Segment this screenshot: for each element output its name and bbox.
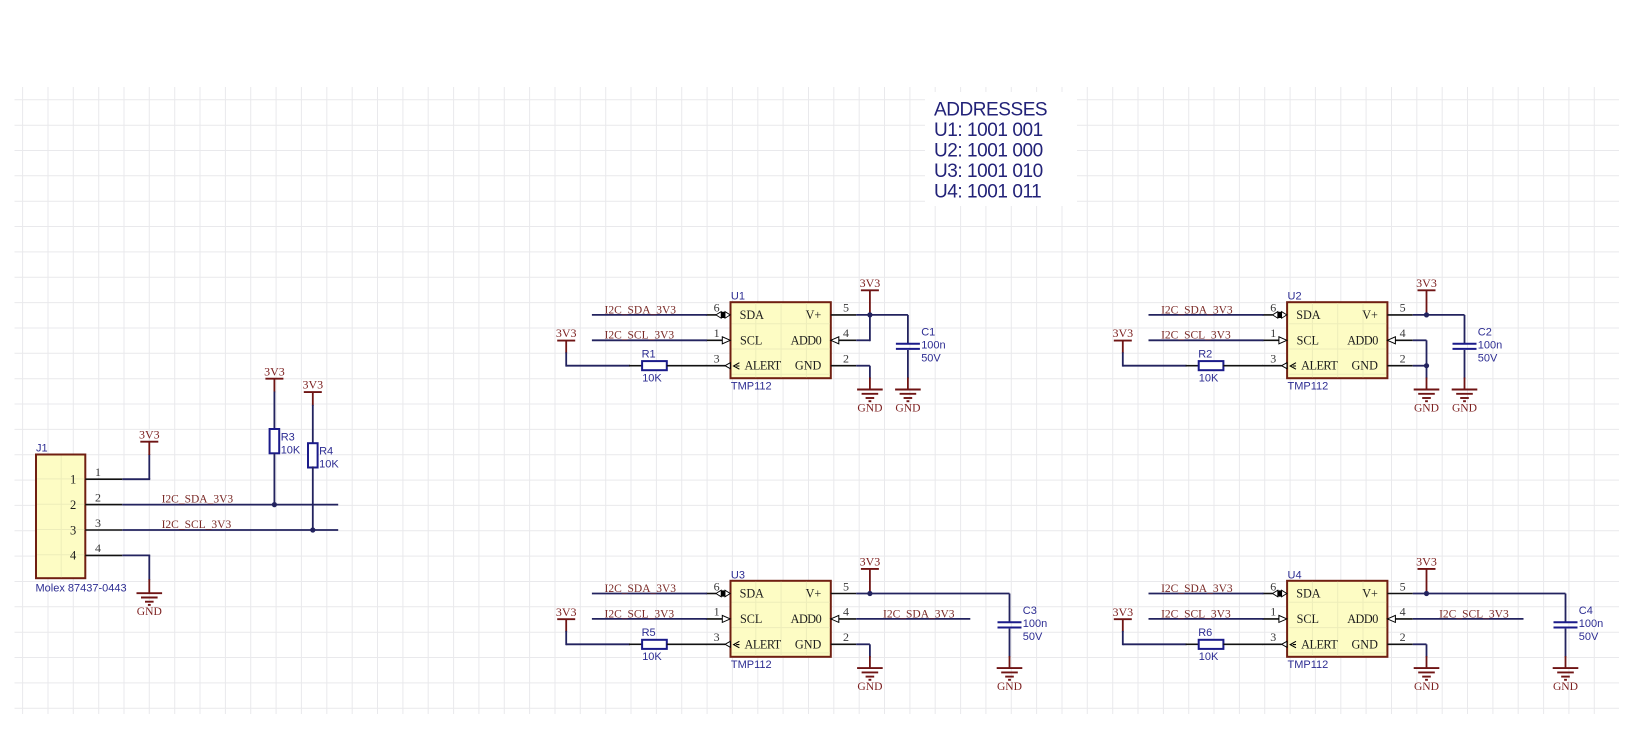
svg-text:I2C_SCL_3V3: I2C_SCL_3V3: [605, 330, 675, 342]
svg-text:4: 4: [1400, 326, 1406, 340]
pin 4 of J1: [70, 541, 122, 563]
svg-text:2: 2: [95, 490, 101, 504]
wire 3V3 stem: [869, 569, 871, 594]
svg-text:6: 6: [1270, 301, 1276, 315]
wire I2C_SCL_3V3 to SCL: [1149, 618, 1264, 620]
svg-text:3: 3: [714, 352, 720, 366]
svg-text:U1: U1: [731, 291, 745, 303]
power 3V3: [302, 378, 323, 392]
connector J1 Molex 87437-0443: [36, 443, 127, 595]
wire V+ rail: [1413, 593, 1566, 595]
pin 3 ALERT of U1: [706, 352, 740, 370]
wire ADD0 to V+: [856, 315, 870, 341]
pin 6 SDA of U4: [1262, 579, 1286, 597]
svg-text:GND: GND: [1414, 402, 1439, 415]
wire I2C_SDA_3V3 to SDA: [1149, 593, 1264, 595]
svg-text:I2C_SDA_3V3: I2C_SDA_3V3: [605, 583, 677, 595]
wire 3V3 stem: [869, 290, 871, 315]
wire I2C_SCL_3V3 to SCL: [592, 618, 707, 620]
svg-text:GND: GND: [857, 402, 882, 415]
svg-text:C1: C1: [921, 326, 935, 338]
pin 5 V+ of U1: [831, 301, 856, 315]
svg-text:GND: GND: [1351, 359, 1378, 373]
svg-text:GND: GND: [795, 359, 822, 373]
svg-text:ADD0: ADD0: [791, 612, 822, 626]
svg-text:GND: GND: [857, 680, 882, 693]
svg-text:GND: GND: [895, 402, 920, 415]
wire cap stem: [907, 315, 909, 344]
svg-text:I2C_SDA_3V3: I2C_SDA_3V3: [1161, 583, 1233, 595]
wire V+ rail: [1413, 314, 1465, 316]
pin 5 V+ of U4: [1387, 579, 1412, 593]
wire V+ rail: [856, 593, 1009, 595]
ground: [857, 390, 883, 415]
svg-text:V+: V+: [1362, 308, 1378, 322]
svg-text:I2C_SCL_3V3: I2C_SCL_3V3: [1161, 608, 1231, 620]
wire I2C_SCL_3V3 bus: [122, 529, 338, 531]
svg-text:3V3: 3V3: [556, 326, 577, 340]
ground: [857, 668, 883, 693]
svg-text:100n: 100n: [921, 339, 945, 351]
resistor R4: [308, 443, 339, 470]
svg-text:R5: R5: [642, 627, 656, 639]
svg-text:3: 3: [70, 523, 76, 537]
capacitor C1: [896, 326, 946, 364]
ground: [1414, 668, 1440, 693]
svg-text:U3: 1001 010: U3: 1001 010: [934, 161, 1043, 182]
svg-text:50V: 50V: [1579, 631, 1599, 643]
pin 2 GND of U3: [831, 630, 856, 644]
svg-text:U2: 1001 000: U2: 1001 000: [934, 141, 1043, 162]
pin 3 ALERT of U3: [706, 630, 740, 648]
pin 2 of J1: [70, 490, 122, 512]
svg-text:50V: 50V: [921, 352, 941, 364]
svg-text:1: 1: [714, 605, 720, 619]
ground: [1452, 390, 1478, 415]
svg-text:1: 1: [70, 473, 76, 487]
svg-text:R4: R4: [319, 446, 333, 458]
svg-text:GND: GND: [1553, 680, 1578, 693]
svg-text:6: 6: [1270, 579, 1276, 593]
svg-text:4: 4: [843, 326, 849, 340]
svg-text:J1: J1: [36, 443, 48, 455]
power 3V3: [860, 555, 881, 569]
wire cap stem: [1009, 594, 1011, 623]
pin 5 V+ of U3: [831, 579, 856, 593]
resistor R1: [642, 348, 667, 384]
svg-text:3V3: 3V3: [302, 378, 323, 392]
svg-text:C3: C3: [1023, 605, 1037, 617]
pin 1 SCL of U1: [706, 326, 731, 344]
wire I2C_SDA_3V3 to SDA: [592, 314, 707, 316]
svg-text:4: 4: [70, 549, 77, 563]
svg-text:SCL: SCL: [1297, 612, 1319, 626]
svg-text:GND: GND: [1414, 680, 1439, 693]
svg-text:R6: R6: [1198, 627, 1212, 639]
svg-text:10K: 10K: [1199, 373, 1219, 385]
svg-text:I2C_SCL_3V3: I2C_SCL_3V3: [605, 608, 675, 620]
svg-text:GND: GND: [795, 637, 822, 651]
wire R5 to ALERT pin: [667, 643, 707, 645]
svg-text:100n: 100n: [1023, 618, 1047, 630]
IC U1 TMP112: [731, 291, 831, 393]
power 3V3: [556, 605, 577, 619]
wire cap to ground: [907, 350, 909, 390]
IC U4 TMP112: [1287, 569, 1387, 671]
wire cap stem: [1565, 594, 1567, 623]
svg-text:SDA: SDA: [740, 587, 765, 601]
svg-text:SCL: SCL: [740, 612, 762, 626]
pin 3 ALERT of U2: [1262, 352, 1296, 370]
svg-text:10K: 10K: [642, 373, 662, 385]
svg-text:5: 5: [843, 579, 849, 593]
pin 6 SDA of U3: [706, 579, 730, 597]
svg-text:I2C_SCL_3V3: I2C_SCL_3V3: [162, 519, 232, 531]
pin 2 GND of U4: [1387, 630, 1412, 644]
svg-text:6: 6: [714, 301, 720, 315]
svg-text:ADD0: ADD0: [1347, 333, 1378, 347]
svg-text:2: 2: [1400, 630, 1406, 644]
svg-text:100n: 100n: [1478, 339, 1502, 351]
wire I2C_SCL_3V3 to SCL: [1149, 339, 1264, 341]
capacitor C3: [998, 605, 1048, 643]
wire I2C_SDA_3V3 to SDA: [592, 593, 707, 595]
svg-text:GND: GND: [1351, 637, 1378, 651]
svg-text:C4: C4: [1579, 605, 1593, 617]
power 3V3: [1112, 326, 1133, 340]
ground: [137, 593, 163, 618]
svg-text:TMP112: TMP112: [731, 659, 772, 671]
junction: [867, 312, 872, 317]
svg-text:TMP112: TMP112: [731, 380, 772, 392]
wire GND pin down: [1413, 644, 1427, 668]
svg-text:3: 3: [1270, 630, 1276, 644]
svg-text:V+: V+: [806, 587, 822, 601]
power 3V3: [1416, 276, 1437, 290]
ground: [895, 390, 921, 415]
wire 3V3 stem: [1426, 569, 1428, 594]
svg-text:R2: R2: [1198, 348, 1212, 360]
svg-text:ADDRESSES: ADDRESSES: [934, 100, 1047, 121]
wire R2 to ALERT pin: [1223, 365, 1263, 367]
svg-text:SDA: SDA: [1296, 308, 1321, 322]
wire ADD0 to GND: [1413, 340, 1427, 365]
pin 1 SCL of U4: [1262, 605, 1287, 623]
wire 3V3 to ALERT resistor: [566, 619, 642, 645]
pin 6 SDA of U2: [1262, 301, 1286, 319]
svg-text:R1: R1: [642, 348, 656, 360]
svg-text:1: 1: [1270, 326, 1276, 340]
svg-text:C2: C2: [1478, 326, 1492, 338]
svg-text:SDA: SDA: [740, 308, 765, 322]
svg-text:GND: GND: [1452, 402, 1477, 415]
wire 3V3 to ALERT resistor: [1123, 341, 1199, 367]
wire R1 to ALERT pin: [667, 365, 707, 367]
power 3V3: [264, 364, 285, 378]
svg-text:SCL: SCL: [1297, 333, 1319, 347]
svg-text:GND: GND: [997, 680, 1022, 693]
svg-text:I2C_SDA_3V3: I2C_SDA_3V3: [162, 494, 234, 506]
svg-text:4: 4: [843, 605, 849, 619]
power 3V3: [1416, 555, 1437, 569]
svg-text:U3: U3: [731, 569, 745, 581]
wire R3 to SDA bus: [273, 453, 275, 504]
svg-text:100n: 100n: [1579, 618, 1603, 630]
wire I2C_SCL_3V3 to SCL: [592, 339, 707, 341]
svg-text:ALERT: ALERT: [745, 359, 782, 373]
resistor R3: [270, 429, 301, 456]
svg-text:5: 5: [1400, 301, 1406, 315]
pin 6 SDA of U1: [706, 301, 730, 319]
ground: [1553, 668, 1579, 693]
svg-text:U4: 1001 011: U4: 1001 011: [934, 182, 1041, 203]
svg-text:TMP112: TMP112: [1288, 659, 1329, 671]
svg-text:SDA: SDA: [1296, 587, 1321, 601]
pin 4 ADD0 of U4: [1387, 605, 1412, 623]
wire V+ rail: [856, 314, 908, 316]
svg-text:U1: 1001 001: U1: 1001 001: [934, 120, 1043, 141]
wire cap to ground: [1009, 629, 1011, 669]
svg-text:4: 4: [95, 541, 101, 555]
resistor R2: [1198, 348, 1223, 384]
svg-text:50V: 50V: [1478, 352, 1498, 364]
svg-text:I2C_SDA_3V3: I2C_SDA_3V3: [1161, 304, 1233, 316]
svg-text:I2C_SDA_3V3: I2C_SDA_3V3: [605, 304, 677, 316]
svg-text:SCL: SCL: [740, 333, 762, 347]
svg-text:3V3: 3V3: [264, 364, 285, 378]
svg-text:1: 1: [714, 326, 720, 340]
svg-text:3V3: 3V3: [1416, 555, 1437, 569]
wire 3V3 to ALERT resistor: [1123, 619, 1199, 645]
wire J1 pin1 to 3V3: [122, 442, 150, 480]
svg-text:1: 1: [1270, 605, 1276, 619]
svg-text:ADD0: ADD0: [1347, 612, 1378, 626]
wire GND pin down: [1413, 366, 1427, 390]
capacitor C4: [1554, 605, 1604, 643]
IC U3 TMP112: [731, 569, 831, 671]
wire 3V3 stem: [1426, 290, 1428, 315]
wire 3V3 to ALERT resistor: [566, 341, 642, 367]
junction: [1424, 591, 1429, 596]
wire J1 pin4 to GND: [122, 555, 150, 593]
svg-text:3V3: 3V3: [860, 276, 881, 290]
wire 3V3 to R4: [312, 392, 314, 443]
svg-text:5: 5: [843, 301, 849, 315]
svg-text:ADD0: ADD0: [791, 333, 822, 347]
svg-text:2: 2: [843, 352, 849, 366]
svg-text:2: 2: [1400, 352, 1406, 366]
wire ADD0 to I2C_SCL_3V3: [1413, 618, 1524, 620]
resistor R5: [642, 627, 667, 663]
svg-text:5: 5: [1400, 579, 1406, 593]
svg-text:I2C_SDA_3V3: I2C_SDA_3V3: [883, 608, 955, 620]
power 3V3: [1112, 605, 1133, 619]
pin 3 ALERT of U4: [1262, 630, 1296, 648]
pin 1 of J1: [70, 465, 122, 487]
wire 3V3 to R3: [273, 379, 275, 429]
pin 4 ADD0 of U1: [831, 326, 856, 344]
pin 4 ADD0 of U2: [1387, 326, 1412, 344]
wire GND pin down: [856, 644, 870, 668]
power 3V3: [860, 276, 881, 290]
svg-text:10K: 10K: [281, 444, 301, 456]
wire cap stem: [1464, 315, 1466, 344]
svg-text:ALERT: ALERT: [1301, 637, 1338, 651]
svg-text:I2C_SCL_3V3: I2C_SCL_3V3: [1161, 330, 1231, 342]
svg-text:V+: V+: [806, 308, 822, 322]
junction: [310, 527, 315, 532]
wire cap to ground: [1464, 350, 1466, 390]
junction: [867, 591, 872, 596]
svg-text:V+: V+: [1362, 587, 1378, 601]
pin 3 of J1: [70, 516, 122, 538]
svg-text:U4: U4: [1288, 569, 1302, 581]
wire GND pin down: [856, 366, 870, 390]
pin 5 V+ of U2: [1387, 301, 1412, 315]
svg-text:2: 2: [843, 630, 849, 644]
wire cap to ground: [1565, 629, 1567, 669]
pin 2 GND of U2: [1387, 352, 1412, 366]
IC U2 TMP112: [1287, 291, 1387, 393]
power 3V3: [556, 326, 577, 340]
capacitor C2: [1453, 326, 1503, 364]
svg-text:3: 3: [1270, 352, 1276, 366]
svg-text:4: 4: [1400, 605, 1406, 619]
svg-text:U2: U2: [1288, 291, 1302, 303]
pin 4 ADD0 of U3: [831, 605, 856, 623]
svg-text:R3: R3: [281, 431, 295, 443]
svg-text:3: 3: [95, 516, 101, 530]
svg-text:10K: 10K: [642, 651, 662, 663]
wire ADD0 to I2C_SDA_3V3: [856, 618, 970, 620]
pin 1 SCL of U3: [706, 605, 731, 623]
wire R6 to ALERT pin: [1223, 643, 1263, 645]
pin 1 SCL of U2: [1262, 326, 1287, 344]
svg-text:GND: GND: [137, 605, 162, 618]
svg-text:10K: 10K: [1199, 651, 1219, 663]
wire R4 to SCL bus: [312, 466, 314, 530]
svg-text:ALERT: ALERT: [745, 637, 782, 651]
ground: [997, 668, 1023, 693]
ground: [1414, 390, 1440, 415]
note ADDRESSES: [925, 92, 1077, 206]
junction: [1424, 312, 1429, 317]
wire I2C_SDA_3V3 to SDA: [1149, 314, 1264, 316]
junction: [272, 502, 277, 507]
svg-text:Molex 87437-0443: Molex 87437-0443: [36, 582, 127, 594]
svg-text:3V3: 3V3: [1416, 276, 1437, 290]
svg-text:2: 2: [70, 498, 76, 512]
svg-text:6: 6: [714, 579, 720, 593]
resistor R6: [1198, 627, 1223, 663]
svg-text:10K: 10K: [319, 459, 339, 471]
svg-text:3V3: 3V3: [139, 427, 160, 441]
svg-text:TMP112: TMP112: [1288, 380, 1329, 392]
pin 2 GND of U1: [831, 352, 856, 366]
junction: [1424, 363, 1429, 368]
wire I2C_SDA_3V3 bus: [122, 504, 338, 506]
svg-text:ALERT: ALERT: [1301, 359, 1338, 373]
power 3V3: [139, 427, 160, 441]
svg-text:3V3: 3V3: [860, 555, 881, 569]
svg-text:3V3: 3V3: [1112, 605, 1133, 619]
svg-text:3V3: 3V3: [1112, 326, 1133, 340]
svg-text:1: 1: [95, 465, 101, 479]
svg-text:50V: 50V: [1023, 631, 1043, 643]
svg-text:I2C_SCL_3V3: I2C_SCL_3V3: [1439, 608, 1509, 620]
svg-text:3V3: 3V3: [556, 605, 577, 619]
svg-text:3: 3: [714, 630, 720, 644]
